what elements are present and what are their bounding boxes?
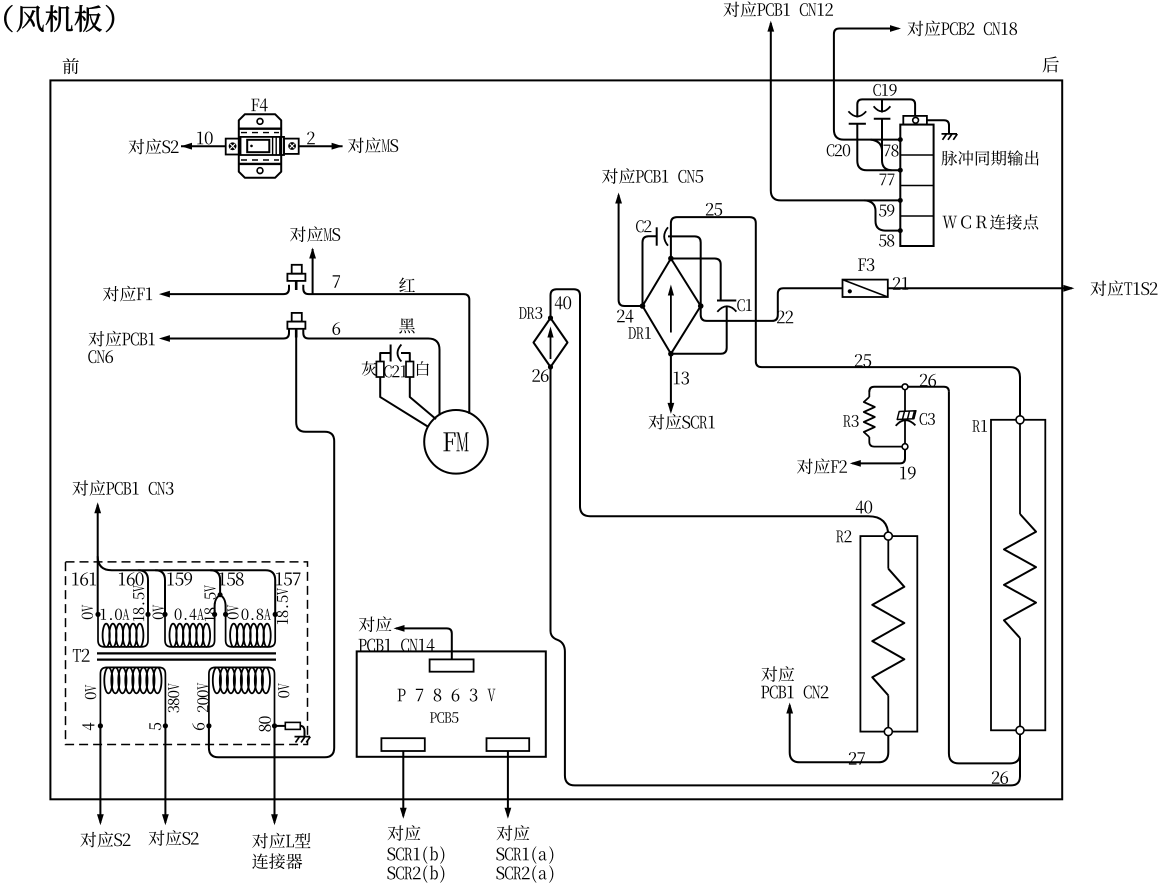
label 77 xyxy=(879,174,886,186)
wire CN12 to pins 59/58 xyxy=(771,23,901,200)
label WCR连接点 xyxy=(942,216,957,229)
label 对应L型 xyxy=(252,833,268,848)
node DR1 left (24) xyxy=(640,303,646,309)
label 18.5V rot (157) xyxy=(277,588,288,624)
label 对应SCR1 xyxy=(648,414,664,429)
module PCB5 top tab xyxy=(430,659,474,671)
capacitor C20 cup plate xyxy=(848,111,866,116)
wire 27: R2 bottom to CN2 xyxy=(790,705,889,762)
label P7863V xyxy=(398,689,406,701)
connector terminal J1 stem xyxy=(295,281,298,290)
wire CN3 to terminal 161 xyxy=(97,505,99,615)
node R1 top xyxy=(1016,416,1024,424)
fuse F4 top mounting hole xyxy=(257,119,263,125)
wire to chassis ground (T2) xyxy=(300,726,304,737)
label C20 xyxy=(827,144,835,156)
label C21 xyxy=(384,365,392,377)
label 27 xyxy=(849,752,857,765)
module PCB5 left tab xyxy=(381,738,424,751)
label 10 xyxy=(197,132,203,145)
wire 21: F3 to T1S2 xyxy=(888,287,1072,289)
arrow up to PCB1 CN3 xyxy=(94,502,101,513)
capacitor C19 cup plate xyxy=(874,106,891,111)
label 26 (DR3) xyxy=(532,369,540,382)
label 对应S2 (terminal 4) xyxy=(80,832,96,847)
winding sec3 loops xyxy=(230,624,237,647)
label 对应 (SCR b) xyxy=(388,825,404,840)
node R2 bottom xyxy=(884,728,892,736)
label C19 xyxy=(873,84,881,96)
wire 6 black: CN6 line to FM xyxy=(165,329,440,415)
fuse F4 body xyxy=(239,114,281,177)
wire 26 down right side xyxy=(949,392,1020,764)
bridge DR1 diamond xyxy=(643,259,701,354)
capacitor C20 flat plate xyxy=(849,123,866,125)
label 对应PCB1 CN3 xyxy=(72,480,88,495)
arrow to 对应F1 xyxy=(159,291,170,298)
wire 22: C2/DR1 right to F3 xyxy=(668,236,843,321)
wire DR1 top to C1 top xyxy=(671,259,721,301)
label 59 xyxy=(879,205,886,217)
label R1 xyxy=(972,420,980,432)
wire PCB5 to CN14 xyxy=(396,628,452,659)
label 7 xyxy=(333,275,340,287)
label C1 xyxy=(737,299,745,311)
fuse F4 window dot xyxy=(250,145,253,148)
label PCB1 CN2 xyxy=(761,686,769,698)
capacitor C2 flat plate xyxy=(656,227,658,245)
label 0V rot (161) xyxy=(82,605,93,619)
label 对应PCB1 CN12 xyxy=(723,2,739,17)
terminal 161 dot xyxy=(95,612,100,617)
arrow to 对应S2 xyxy=(181,143,192,150)
capacitor C21 curved plate xyxy=(398,345,402,362)
terminal 5 dot xyxy=(163,723,168,728)
terminal 157 dot xyxy=(273,612,278,617)
varistor DR3 arrow xyxy=(550,331,552,359)
connector terminal J2 square xyxy=(292,313,302,322)
label 22 xyxy=(777,311,785,324)
winding sec2 loops xyxy=(170,624,177,647)
terminal 80 dot xyxy=(272,723,277,728)
label 对应 (SCR a) xyxy=(497,825,513,840)
wire J2 down to T2 terminal 6 xyxy=(209,329,334,757)
module PCB5 box xyxy=(357,651,546,756)
label R2 xyxy=(836,531,844,543)
wire 7 red: F1 line to FM xyxy=(165,285,469,414)
label 24 xyxy=(617,310,625,323)
wire branch to 159 xyxy=(155,570,165,614)
board outline box xyxy=(50,80,1062,799)
winding pri1 loops xyxy=(104,668,112,694)
label 对应PCB1 (CN6) xyxy=(88,331,104,346)
arrow to 对应PCB1 CN6 xyxy=(159,335,170,342)
arrow up to PCB1 CN2 xyxy=(786,703,793,714)
label 0V rot (pri left) xyxy=(85,685,96,699)
wire C1 bottom to DR1 bottom xyxy=(671,306,727,354)
capacitor C1 curved plate xyxy=(717,306,736,312)
fuse F4 upper dashed line xyxy=(241,132,279,134)
label 380V rot xyxy=(168,683,179,712)
label 80 rot xyxy=(259,716,271,731)
label 161 xyxy=(72,572,78,585)
label 5 rot xyxy=(149,723,161,730)
wire jog 59-58 xyxy=(865,200,901,230)
pin 59 junction xyxy=(898,198,903,203)
label 26 (bottom right) xyxy=(992,771,1000,784)
node DR3 bottom (26) xyxy=(548,364,553,369)
resistor R2 element xyxy=(887,540,889,569)
wire left tab to SCR(b) xyxy=(402,751,404,816)
wire MS branch xyxy=(312,249,314,294)
wire CN18 to pin 78 xyxy=(834,29,900,140)
label 13 xyxy=(674,372,680,385)
wire 40: DR3 top to R2 top xyxy=(551,289,889,536)
node DR1 bottom xyxy=(668,351,674,357)
fuse F4 left tab xyxy=(226,139,241,155)
wire 19 to F2 xyxy=(852,450,905,464)
fuse F3 body xyxy=(843,280,888,297)
capacitor C3 curved plate xyxy=(896,420,916,426)
label 4 rot xyxy=(82,723,94,731)
pin 58 junction xyxy=(898,228,903,233)
wire branch to 160 xyxy=(138,570,148,614)
motor FM circle xyxy=(424,410,488,474)
label 对应S2 (F4 left) xyxy=(128,139,144,154)
capacitor C21 flat plate xyxy=(390,345,392,362)
label 40 (DR3) xyxy=(555,296,563,309)
arrow to PCB1 CN14 xyxy=(394,625,405,632)
label 对应PCB1 CN5 xyxy=(602,168,618,183)
fuse F4 central strip xyxy=(240,137,284,155)
label 后 (rear) xyxy=(1043,56,1059,72)
label C3 xyxy=(920,413,928,425)
label 25 (top) xyxy=(706,203,714,216)
wire 24 to CN5 arrow xyxy=(619,195,643,306)
varistor DR3 diamond xyxy=(534,318,568,367)
terminal lug 白 (white) xyxy=(406,362,414,378)
label 对应MS (upper branch) xyxy=(290,227,306,242)
transformer core lines xyxy=(97,652,276,654)
label 灰 (grey) xyxy=(362,361,377,376)
label 0V rot (pri right) xyxy=(278,683,289,697)
label 160 xyxy=(119,572,125,585)
terminal 159 dot xyxy=(162,612,167,617)
label SCR1(b) xyxy=(387,848,395,861)
label 159 xyxy=(168,572,174,585)
capacitor C1 flat plate xyxy=(717,300,736,302)
label 158 xyxy=(219,572,225,585)
wire C19/C20 top bracket xyxy=(857,99,915,117)
label 19 xyxy=(900,467,906,480)
capacitor C21 right lead xyxy=(401,353,410,362)
title 风机板 (fan board) xyxy=(4,5,12,32)
resistor R1 box xyxy=(991,420,1045,731)
label 200V rot xyxy=(197,683,208,712)
wire terminal 4 to S2 xyxy=(99,726,101,823)
terminal 158a dot xyxy=(212,612,217,617)
connector terminal J1 flange xyxy=(287,274,305,281)
capacitor C20 bottom lead xyxy=(857,124,900,170)
label 0.4A xyxy=(175,609,182,620)
arrow to 对应MS (F4 right) xyxy=(332,143,343,150)
label C2 xyxy=(636,220,644,232)
terminal 4 dot xyxy=(98,723,103,728)
label SCR2(b) xyxy=(387,867,395,880)
label 2 xyxy=(307,132,315,145)
node 26 (R3/C3 top) xyxy=(902,384,908,390)
label 18.5V rot (158) xyxy=(204,585,215,621)
label 6 xyxy=(332,322,340,335)
wire 13: DR1 bottom to SCR1 xyxy=(670,354,672,411)
wire jog 78-77 xyxy=(871,140,883,151)
label 对应MS (F4 right) xyxy=(348,138,364,153)
arrow right to PCB2 CN18 xyxy=(890,25,901,32)
label 对应S2 (terminal 5) xyxy=(149,830,165,845)
resistor R2 box xyxy=(860,536,917,732)
winding pri1 frame xyxy=(100,667,165,726)
winding sec2 frame xyxy=(165,614,215,647)
chassis ground (T2) xyxy=(295,737,311,743)
motor FM label xyxy=(443,432,455,451)
label T2 xyxy=(73,649,81,662)
connector terminal J2 stem xyxy=(295,329,298,338)
fuse F4 label xyxy=(251,99,259,111)
label PCB5 xyxy=(430,712,437,723)
capacitor C19 flat plate xyxy=(874,118,891,120)
label 前 (front) xyxy=(63,58,79,74)
label 对应 (CN2) xyxy=(761,666,777,681)
label 对应 (CN14) xyxy=(359,617,375,632)
label 红 (red) xyxy=(399,278,415,293)
fuse F3 diagonal xyxy=(843,280,888,297)
arrow to 对应T1S2 xyxy=(1063,285,1074,292)
label 0V rot (159) xyxy=(153,605,164,619)
winding sec3 frame xyxy=(226,614,276,647)
bridge DR1 arrow xyxy=(670,290,672,333)
wire secondary bus rail xyxy=(98,556,276,614)
resistor at terminal 80 xyxy=(275,725,286,727)
label DR1 xyxy=(628,327,636,339)
label 对应F2 xyxy=(797,459,813,474)
node DR1 top xyxy=(668,256,674,262)
wire node26 top rail xyxy=(869,387,949,392)
connector on WCR block top xyxy=(903,116,927,125)
fuse F4 lower band line xyxy=(239,163,281,165)
label PCB1 CN14 xyxy=(359,639,367,651)
arrow to 对应PCB1 CN5 xyxy=(615,193,622,204)
label 对应F1 xyxy=(103,286,119,301)
wire white lead to FM xyxy=(410,377,436,419)
fuse F4 left screw xyxy=(229,142,237,150)
wire DR1 left up to C2 xyxy=(643,236,657,306)
capacitor C2 curved plate xyxy=(664,227,668,245)
label 78 xyxy=(883,145,890,157)
node 19 (R3/C3 bottom) xyxy=(902,444,908,450)
wire terminal 80 to L-connector xyxy=(274,726,276,823)
winding sec1 loops xyxy=(103,624,110,647)
wire grey lead to FM xyxy=(380,377,428,427)
node DR3 top (40) xyxy=(548,315,553,320)
label F3 xyxy=(858,259,866,271)
label DR3 xyxy=(519,307,527,319)
label SCR1(a) xyxy=(496,848,504,861)
wire F4 pin10 to S2 xyxy=(181,145,226,147)
wire 26: DR3 bottom to R1 bottom xyxy=(551,367,1021,785)
fuse F4 right tab xyxy=(284,139,299,154)
label 25 (right) xyxy=(855,354,863,367)
label 26 (R3 top) xyxy=(920,374,928,387)
node R1 bottom xyxy=(1016,726,1024,734)
capacitor C19 bottom lead xyxy=(882,119,892,170)
fuse F4 bottom mounting hole xyxy=(257,168,263,174)
wire terminal 5 to S2 xyxy=(164,726,166,823)
wire 25 loop: DR1 top to R1 top xyxy=(671,217,1020,420)
arrow up to MS xyxy=(309,248,316,259)
winding pri2 frame xyxy=(209,667,275,726)
resistor R1 element xyxy=(1019,424,1021,514)
wire branch to 158 pair xyxy=(210,570,225,614)
label 157 xyxy=(276,572,282,585)
label 18.5V rot (160) xyxy=(133,585,144,621)
fuse F4 right screw xyxy=(288,142,296,150)
label 白 (white) xyxy=(417,361,429,376)
winding pri2 loops xyxy=(213,668,221,694)
label 0V rot (158b) xyxy=(227,605,238,619)
chassis ground (top right) xyxy=(942,134,958,140)
label 1.0A xyxy=(101,609,106,620)
node DR1 right xyxy=(698,303,704,309)
label 0.8A xyxy=(242,609,249,620)
label 对应T1S2 xyxy=(1090,281,1106,296)
label 6 rot xyxy=(192,723,204,730)
label 58 xyxy=(879,235,886,247)
capacitor C21 left lead xyxy=(380,353,390,362)
fuse F4 fuse window xyxy=(247,140,269,152)
wire right tab to SCR(a) xyxy=(507,751,509,816)
pin 77 junction xyxy=(898,168,903,173)
label CN6 xyxy=(88,350,96,363)
label 脉冲同期输出 xyxy=(942,151,958,166)
fuse F4 lower dashed line xyxy=(241,159,279,161)
module PCB5 right tab xyxy=(487,738,530,751)
capacitor C3 bottom lead xyxy=(904,421,906,444)
fuse F4 clip lines xyxy=(273,137,280,155)
fuse F3 dot xyxy=(848,289,852,293)
terminal 158b dot xyxy=(223,612,228,617)
label 黑 (black) xyxy=(399,318,415,333)
terminal 6 dot xyxy=(206,723,211,728)
junction 158 mid xyxy=(218,592,223,597)
arrow up to PCB1 CN12 xyxy=(767,21,774,32)
label 对应PCB2 CN18 xyxy=(907,21,923,36)
connector terminal J2 flange xyxy=(287,322,305,329)
terminal 160 dot xyxy=(145,612,150,617)
label 连接器 xyxy=(252,854,268,870)
wire F4 pin2 to MS xyxy=(299,145,343,147)
T2 dashed enclosure xyxy=(66,562,308,745)
capacitor C3 top lead xyxy=(904,390,906,411)
node R2 top xyxy=(884,532,892,540)
arrow to 对应F2 xyxy=(850,460,861,467)
wire to chassis ground xyxy=(927,120,949,133)
fuse F4 upper band line xyxy=(239,127,281,129)
label 40 (R2 top) xyxy=(856,501,864,514)
connector terminal J1 square xyxy=(292,265,302,274)
winding sec1 frame xyxy=(98,614,148,647)
terminal lug 灰 (grey) xyxy=(376,362,384,378)
pin 78 junction xyxy=(898,137,903,142)
label R3 xyxy=(843,415,851,427)
capacitor C3 hatched plate xyxy=(897,411,916,420)
label SCR2(a) xyxy=(496,867,504,880)
terminal block WCR xyxy=(900,125,933,246)
label 21 xyxy=(893,277,901,290)
resistor R3 zigzag xyxy=(868,392,870,397)
